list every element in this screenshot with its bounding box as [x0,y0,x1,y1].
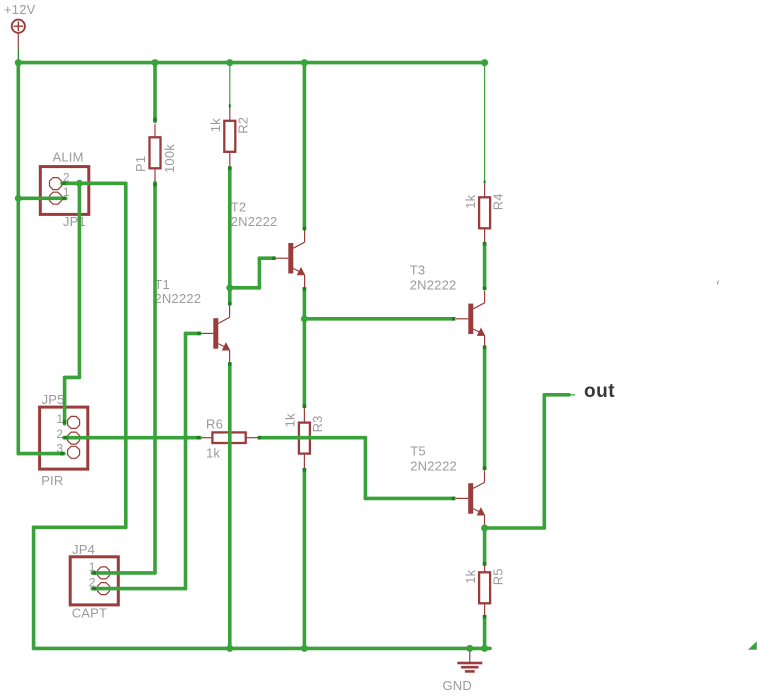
transistor T3 name [410,263,426,278]
resistor R4 name label [490,193,505,210]
junction T3 base node [301,315,308,322]
wire R2 top thin [229,63,231,105]
junction ground rail R3 [301,645,308,652]
junction rail right end [481,59,488,66]
resistor R5 top lead [484,566,486,573]
connector JP4 label CAPT [72,606,107,621]
resistor R6 name label [206,417,223,432]
wire to T5 base [365,438,453,499]
svg-text:T2: T2 [231,200,247,215]
svg-text:2N2222: 2N2222 [231,214,278,229]
pin cap T5 collector [483,467,487,471]
JP1 pin number 1 [63,185,70,199]
label out [584,381,615,402]
green corner artifact bottom right [748,641,757,650]
wire R3 bottom to ground rail [303,470,307,649]
resistor P1 bottom lead [154,168,156,182]
JP4 pin number 2 [89,575,96,589]
resistor R6 left lead [200,437,212,439]
pin cap R4 bottom [483,242,487,246]
svg-text:1k: 1k [208,118,223,132]
resistor R5 bottom lead [484,603,486,615]
connector JP1 label ALIM [53,150,84,165]
pin cap JP4 pin2 [92,587,96,591]
resistor R5 name label [490,568,505,585]
svg-text:R3: R3 [310,415,325,432]
svg-text:1k: 1k [463,569,478,583]
wire R4 top thin [484,63,486,181]
transistor T3 value 2N2222 [410,278,457,293]
wire JP1 pin2 drop to JP5 pin1 [65,183,80,423]
resistor R3 body [299,423,310,454]
svg-text:T3: T3 [410,263,426,278]
wire T2 collector to rail [303,63,307,229]
wire T3 emitter to T5 collector [483,347,487,468]
wire P1 bottom to JP4 pin1 [92,183,155,573]
JP4 pin number 1 [89,560,96,574]
junction +12V rail left [15,59,22,66]
svg-text:100k: 100k [162,144,177,173]
wire left vertical +12V to JP5 pin3 [16,63,20,454]
resistor R3 name label [310,415,325,432]
junction rail R2 [226,59,233,66]
connector JP5 box [40,407,88,469]
svg-text:1: 1 [56,412,63,426]
svg-text:T5: T5 [410,444,426,459]
pin cap R2 top [229,104,231,107]
JP5 pin number 3 [56,442,63,456]
junction ground rail T1 [226,645,233,652]
pin cap T3 collector [483,287,487,291]
JP5 pin number 1 [56,412,63,426]
resistor R3 bottom lead [303,454,305,468]
pin cap T3 emitter [483,345,487,349]
JP5 pin 1 pad [68,416,80,428]
label +12V [4,2,36,17]
wire JP1 pin1 horizontal [18,197,65,201]
resistor P1 body [150,137,161,168]
pin cap R5 top [483,562,487,566]
svg-text:2N2222: 2N2222 [410,459,457,474]
svg-text:+12V: +12V [4,2,36,17]
connector JP4 box [70,557,118,605]
connector JP5 name [42,392,65,407]
wire P1 top [153,63,157,122]
pin cap JP1 pin1 [62,197,66,201]
svg-text:1k: 1k [463,194,478,208]
resistor R4 body [479,197,490,228]
pin cap R5 bottom [483,615,487,619]
resistor R6 body (horizontal) [212,432,245,443]
transistor T1 value 2N2222 [154,291,201,306]
svg-text:R4: R4 [490,193,505,210]
JP5 pin 3 pad [68,446,80,458]
wire T1 base from JP4 pin2 [92,333,199,588]
label GND [443,678,473,693]
small gray artifact right edge [717,281,719,285]
wire R2 bottom to T1 collector [228,168,232,304]
pin cap T1 collector [228,302,232,306]
JP1 pin number 2 [63,171,70,185]
wire ground loop horizontal [34,525,126,529]
svg-text:R5: R5 [490,568,505,585]
junction JP1 pin1 left rail [15,195,22,202]
resistor R2 top lead [229,108,231,121]
svg-text:out: out [584,381,615,402]
wire T2 emitter to R3 [303,289,307,406]
pin cap R4 top [484,181,486,184]
resistor P1 top lead [154,124,156,137]
resistor R2 body [224,121,235,152]
transistor T1 name [154,277,170,292]
svg-text:ALIM: ALIM [53,150,84,165]
junction rail P1 [152,59,159,66]
junction JP1 pin2 [76,180,83,187]
svg-text:PIR: PIR [41,473,63,488]
transistor T2 body [276,230,305,287]
resistor R2 value label 1k [208,118,223,132]
wire R5 bottom to ground rail [483,617,487,649]
connector JP4 name [72,542,95,557]
wire T2 base branch [230,258,274,288]
JP5 pin number 2 [56,427,63,441]
junction ground rail GND [466,645,473,652]
pin cap P1 bottom [153,183,157,187]
transistor T5 name [410,444,426,459]
pin cap JP5 pin3 [60,452,64,456]
wire R4 bottom to T3 collector [483,244,487,289]
pin cap T3 base [452,317,456,321]
resistor P1 value 100k [162,144,177,173]
resistor P1 name label [133,156,148,172]
resistor R6 value 1k [206,446,220,461]
pin cap R6 left [197,436,201,440]
pin cap R3 bottom [303,468,307,472]
svg-text:2N2222: 2N2222 [154,291,201,306]
svg-text:CAPT: CAPT [72,606,107,621]
pin cap T1 emitter [228,362,232,366]
pin cap JP1 pin2 [62,182,66,186]
junction T5 emitter node [481,525,488,532]
transistor T5 body [456,471,485,528]
pin cap T2 base [272,256,276,260]
wire JP5 pin3 horizontal [18,452,64,456]
connector JP5 label PIR [41,473,63,488]
junction ground rail R5 [481,645,488,652]
wire JP1 pin2 right vertical [124,183,128,527]
JP1 pin 1 pad [50,192,62,204]
pin cap JP5 pin2 [64,436,68,440]
transistor T2 name [231,200,247,215]
svg-text:GND: GND [443,678,473,693]
pin cap R2 bottom [228,166,232,170]
wire R6 to R3 crossing [259,436,365,440]
wire ground loop left vertical [32,527,36,648]
wire top +12V rail [18,61,484,65]
connector JP1 name [63,214,86,229]
pin cap R6 right [258,436,262,440]
connector JP1 box [40,167,89,215]
JP4 pin 2 pad [98,583,110,595]
wire +12V stub [17,48,19,60]
pin cap JP5 pin1 [63,420,67,424]
wire JP1 pin2 horizontal [62,182,126,186]
svg-text:2N2222: 2N2222 [410,278,457,293]
svg-text:JP4: JP4 [72,542,95,557]
pin cap P1 top [153,118,157,122]
wire bottom ground rail [34,647,490,651]
pin cap R3 top [303,405,307,409]
pin cap JP4 pin1 [92,571,96,575]
resistor R3 top lead [303,408,305,423]
ground symbol GND [457,650,482,673]
power symbol +12V [12,20,25,49]
resistor R2 name label [236,117,251,134]
pin cap T5 base [452,497,456,501]
resistor R3 value label 1k [283,413,298,427]
resistor R4 top lead [484,183,486,197]
svg-text:2: 2 [56,427,63,441]
resistor R2 bottom lead [229,152,231,166]
svg-text:1k: 1k [206,446,220,461]
JP1 pin 2 pad [50,178,62,190]
svg-text:R2: R2 [236,117,251,134]
transistor T2 value 2N2222 [231,214,278,229]
JP4 pin 1 pad [98,567,110,579]
transistor T3 body [456,291,485,348]
svg-text:R6: R6 [206,417,223,432]
resistor R5 body [479,572,490,603]
svg-text:P1: P1 [133,156,148,172]
svg-text:JP1: JP1 [63,214,86,229]
junction T2 base node [226,284,233,291]
pin cap T1 base [197,332,201,336]
wire T3 base horizontal [304,317,453,321]
resistor R4 value label 1k [463,194,478,208]
transistor T5 value 2N2222 [410,459,457,474]
pin cap T2 emitter [303,287,307,291]
wire T5 emitter to out [485,395,575,528]
JP5 pin 2 pad [68,432,80,444]
resistor R6 right lead [246,437,258,439]
wire JP5 pin2 to R6 [64,436,200,440]
junction rail T2 collector [301,59,308,66]
pin cap T2 collector [303,227,307,231]
resistor R5 value label 1k [463,569,478,583]
wire T1 emitter to ground rail [228,364,232,648]
wire T5 emitter node [483,528,487,564]
svg-text:1k: 1k [283,413,298,427]
resistor R4 bottom lead [484,228,486,242]
svg-text:JP5: JP5 [42,392,65,407]
transistor T1 body [201,306,230,363]
